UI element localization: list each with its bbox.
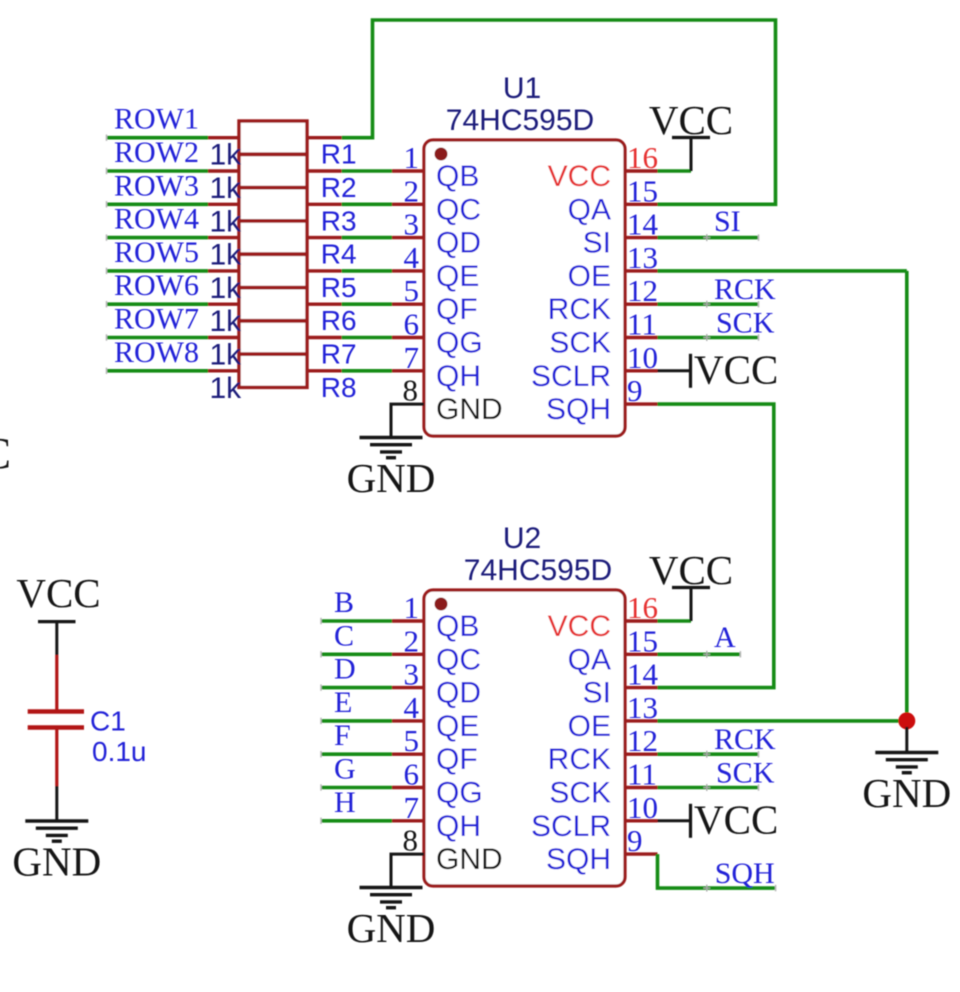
svg-text:GND: GND (347, 905, 436, 951)
svg-text:GND: GND (347, 455, 436, 501)
resistor R1 left pin (208, 136, 239, 139)
resistor divider 7 (239, 352, 307, 356)
U2 pin 4 stub (392, 719, 424, 722)
resistor divider 5 (239, 286, 307, 290)
wire A from U2 pin 15 (658, 652, 741, 656)
svg-text:R5: R5 (321, 272, 357, 303)
svg-text:QD: QD (436, 227, 481, 260)
U2 pin 13 stub (625, 719, 658, 722)
wire U1 pin 9 SQH down to U2 pin 14 SI (658, 404, 774, 687)
svg-text:GND: GND (436, 843, 503, 876)
resistor divider 6 (239, 319, 307, 323)
svg-text:11: 11 (627, 757, 657, 792)
svg-text:R4: R4 (321, 239, 357, 270)
resistor R6 right pin (307, 303, 342, 306)
U1 pin 14 stub (625, 236, 658, 239)
wire resistor to U1 pin 4 (342, 269, 392, 273)
svg-text:VCC: VCC (16, 570, 100, 616)
svg-text:QG: QG (436, 327, 483, 360)
svg-text:QG: QG (436, 777, 483, 810)
svg-text:QB: QB (436, 160, 479, 193)
wire U2 pin 10 to VCC bar (658, 819, 691, 822)
wire input H to U2 pin 7 (321, 819, 392, 823)
resistor divider 1 (239, 152, 307, 156)
wire SCK from U2 pin 11 (658, 786, 759, 790)
svg-text:QE: QE (436, 260, 479, 293)
svg-text:1k: 1k (210, 339, 243, 372)
IC U2 pin-1 dot (435, 598, 448, 611)
U1 pin 16 stub (625, 169, 658, 172)
wire ROW5 (107, 269, 209, 273)
wire ROW4 (107, 236, 209, 240)
wire RCK from U1 pin 12 (658, 302, 759, 306)
capacitor C1 top lead (55, 655, 58, 710)
svg-text:11: 11 (627, 307, 657, 342)
svg-text:8: 8 (403, 823, 419, 858)
U1 pin 11 stub (625, 336, 658, 339)
svg-text:U2: U2 (503, 522, 541, 555)
U2 pin 9 stub (625, 852, 658, 855)
wire junction to ground (905, 727, 908, 753)
svg-text:QA: QA (568, 193, 611, 226)
wire resistor to U1 pin 2 (342, 203, 392, 207)
U1 pin 12 stub (625, 303, 658, 306)
svg-text:VCC: VCC (694, 796, 778, 842)
resistor R3 right pin (307, 203, 342, 206)
svg-text:ROW2: ROW2 (114, 136, 199, 169)
wire right rail vertical (905, 271, 909, 721)
ground symbol at U2 pin 8 (360, 886, 423, 889)
wire OE U1 pin 13 to right rail (658, 269, 907, 273)
svg-text:RCK: RCK (548, 743, 611, 776)
svg-text:QC: QC (436, 643, 481, 676)
svg-text:6: 6 (404, 757, 420, 792)
resistor R8 left pin (208, 369, 239, 372)
svg-text:12: 12 (627, 723, 658, 758)
resistor R5 right pin (307, 269, 342, 272)
svg-text:C1: C1 (90, 706, 126, 737)
svg-text:2: 2 (404, 623, 420, 658)
wire resistor to U1 pin 1 (342, 169, 392, 173)
wire U1 pin 16 to VCC (658, 169, 692, 173)
wire input G to U2 pin 6 (321, 786, 392, 790)
svg-text:1k: 1k (210, 305, 243, 338)
wire resistor to U1 pin 7 (342, 369, 392, 373)
U1 pin 6 stub (392, 336, 424, 339)
resistor divider 4 (239, 252, 307, 256)
svg-text:B: B (334, 586, 354, 619)
svg-text:VCC: VCC (0, 429, 11, 478)
svg-text:74HC595D: 74HC595D (446, 104, 594, 137)
U1 pin 7 stub (392, 369, 424, 372)
IC U1 pin-1 dot (435, 148, 448, 161)
svg-text:5: 5 (404, 723, 420, 758)
wire input F to U2 pin 5 (321, 752, 392, 756)
U1 pin 13 stub (625, 269, 658, 272)
svg-text:SCLR: SCLR (531, 810, 611, 843)
svg-text:74HC595D: 74HC595D (464, 554, 612, 587)
svg-text:1k: 1k (210, 372, 243, 405)
U1 pin 2 stub (392, 203, 424, 206)
svg-text:SI: SI (583, 677, 611, 710)
wire ROW8 (107, 369, 209, 373)
resistor R2 right pin (307, 169, 342, 172)
svg-text:7: 7 (404, 340, 420, 375)
U1 pin 8 wire to ground (391, 404, 424, 437)
svg-text:QH: QH (436, 360, 481, 393)
U2 pin 11 stub (625, 786, 658, 789)
svg-text:SQH: SQH (546, 843, 611, 876)
svg-text:6: 6 (404, 307, 420, 342)
svg-text:SCK: SCK (549, 327, 611, 360)
junction node right rail (898, 712, 915, 729)
svg-text:VCC: VCC (548, 610, 611, 643)
svg-text:5: 5 (404, 273, 420, 308)
wire input D to U2 pin 3 (321, 686, 392, 690)
U2 pin 15 stub (625, 653, 658, 656)
wire VCC to C1 top (black) (55, 622, 58, 655)
wire net ROW1 loop: resistor R1 output up over to U1 pin 15 (342, 20, 776, 204)
svg-text:2: 2 (404, 173, 420, 208)
svg-text:QF: QF (436, 293, 478, 326)
resistor R8 right pin (307, 369, 342, 372)
svg-text:0.1u: 0.1u (92, 736, 147, 767)
U1 pin 9 stub (625, 402, 658, 405)
wire ROW7 (107, 336, 209, 340)
wire U2 pin 13 OE to right rail junction (658, 719, 907, 723)
wire SQH from U2 pin 9 (658, 854, 776, 888)
svg-text:SQH: SQH (715, 857, 775, 890)
wire ROW2 (107, 169, 209, 173)
svg-text:C: C (334, 619, 354, 652)
svg-text:3: 3 (404, 657, 420, 692)
wire resistor to U1 pin 3 (342, 236, 392, 240)
svg-text:1k: 1k (210, 172, 243, 205)
svg-text:12: 12 (627, 273, 658, 308)
wire input C to U2 pin 2 (321, 652, 392, 656)
U2 pin 14 stub (625, 686, 658, 689)
resistor divider 2 (239, 186, 307, 190)
IC U2 74HC595D U2 body (424, 590, 625, 886)
svg-text:16: 16 (627, 140, 658, 175)
svg-text:ROW5: ROW5 (114, 236, 199, 269)
VCC bar symbol at U1 pin 10 (689, 354, 692, 388)
svg-text:1k: 1k (210, 239, 243, 272)
U2 pin 5 stub (392, 753, 424, 756)
U2 pin 1 stub (392, 619, 424, 622)
svg-text:1: 1 (404, 140, 420, 175)
svg-text:ROW4: ROW4 (114, 203, 199, 236)
svg-text:QE: QE (436, 710, 479, 743)
svg-text:SI: SI (714, 205, 741, 238)
capacitor C1 bottom lead (55, 730, 58, 787)
svg-text:RCK: RCK (714, 723, 776, 756)
svg-text:GND: GND (436, 393, 503, 426)
svg-text:QF: QF (436, 743, 478, 776)
resistor pack R1-R8 outline (239, 121, 307, 387)
U2 pin 7 stub (392, 819, 424, 822)
svg-text:A: A (714, 621, 736, 654)
svg-text:E: E (334, 686, 352, 719)
resistor R6 left pin (208, 303, 239, 306)
resistor R3 left pin (208, 203, 239, 206)
svg-text:F: F (334, 719, 351, 752)
svg-text:SCK: SCK (716, 757, 775, 790)
resistor divider 3 (239, 219, 307, 223)
wire SI from U1 pin 14 (658, 236, 759, 240)
svg-text:14: 14 (627, 207, 659, 242)
IC U1 74HC595D U1 body (424, 140, 625, 436)
svg-text:ROW3: ROW3 (114, 169, 199, 202)
U1 pin 1 stub (392, 169, 424, 172)
svg-text:D: D (334, 653, 356, 686)
svg-text:R1: R1 (321, 139, 357, 170)
svg-text:16: 16 (627, 590, 658, 625)
svg-text:1: 1 (404, 590, 420, 625)
wire SCK from U1 pin 11 (658, 336, 759, 340)
svg-text:SCK: SCK (549, 777, 611, 810)
wire RCK from U2 pin 12 (658, 752, 759, 756)
VCC bar symbol at U2 pin 10 (689, 804, 692, 838)
svg-text:1k: 1k (210, 139, 243, 172)
wire resistor to U1 pin 5 (342, 302, 392, 306)
svg-text:1k: 1k (210, 205, 243, 238)
svg-text:RCK: RCK (548, 293, 611, 326)
U2 pin 6 stub (392, 786, 424, 789)
wire input E to U2 pin 4 (321, 719, 392, 723)
U2 pin 8 wire to ground (391, 854, 424, 887)
U2 pin 16 stub (625, 619, 658, 622)
svg-text:U1: U1 (503, 72, 541, 105)
resistor R7 right pin (307, 336, 342, 339)
svg-text:QH: QH (436, 810, 481, 843)
svg-text:VCC: VCC (548, 160, 611, 193)
svg-text:9: 9 (627, 823, 643, 858)
U2 pin 10 stub (625, 819, 658, 822)
svg-text:GND: GND (12, 839, 101, 885)
svg-text:9: 9 (627, 373, 643, 408)
svg-text:14: 14 (627, 657, 659, 692)
wire resistor to U1 pin 6 (342, 336, 392, 340)
svg-text:4: 4 (404, 240, 420, 275)
svg-text:R6: R6 (321, 305, 357, 336)
U1 pin 5 stub (392, 303, 424, 306)
svg-text:QA: QA (568, 643, 611, 676)
wire ROW1 (107, 136, 209, 140)
svg-text:R7: R7 (321, 339, 357, 370)
U2 pin 12 stub (625, 753, 658, 756)
svg-text:ROW8: ROW8 (114, 336, 199, 369)
wire ROW6 (107, 302, 209, 306)
svg-text:H: H (334, 786, 356, 819)
svg-text:ROW1: ROW1 (114, 103, 199, 136)
svg-text:8: 8 (403, 373, 419, 408)
wire input B to U2 pin 1 (321, 619, 392, 623)
svg-text:QD: QD (436, 677, 481, 710)
resistor R5 left pin (208, 269, 239, 272)
svg-text:GND: GND (862, 770, 951, 816)
U1 pin 10 stub (625, 369, 658, 372)
resistor R1 right pin (307, 136, 342, 139)
wire U2 pin 16 to VCC (658, 619, 692, 623)
ground symbol below C1 (25, 819, 88, 822)
wire C1 bottom to ground (black) (55, 786, 58, 821)
svg-text:SI: SI (583, 227, 611, 260)
svg-text:15: 15 (627, 623, 658, 658)
svg-text:13: 13 (627, 690, 658, 725)
svg-text:OE: OE (568, 260, 611, 293)
svg-text:SQH: SQH (546, 393, 611, 426)
svg-text:QC: QC (436, 193, 481, 226)
resistor R7 left pin (208, 336, 239, 339)
svg-text:3: 3 (404, 207, 420, 242)
wire U1 pin 10 to VCC bar (658, 369, 691, 372)
U2 pin 3 stub (392, 686, 424, 689)
resistor R2 left pin (208, 169, 239, 172)
svg-text:VCC: VCC (694, 346, 778, 392)
ground symbol right rail (875, 751, 938, 754)
svg-text:R8: R8 (321, 372, 357, 403)
svg-text:15: 15 (627, 173, 658, 208)
capacitor C1 plates (28, 709, 84, 713)
svg-text:R2: R2 (321, 172, 357, 203)
resistor R4 left pin (208, 236, 239, 239)
svg-text:SCK: SCK (716, 307, 775, 340)
svg-text:10: 10 (627, 340, 658, 375)
svg-text:G: G (334, 753, 356, 786)
U1 pin 3 stub (392, 236, 424, 239)
svg-text:OE: OE (568, 710, 611, 743)
wire ROW3 (107, 203, 209, 207)
svg-text:7: 7 (404, 790, 420, 825)
U1 pin 15 stub (625, 203, 658, 206)
resistor R4 right pin (307, 236, 342, 239)
ground symbol at U1 pin 8 (360, 436, 423, 439)
svg-text:R3: R3 (321, 205, 357, 236)
svg-text:10: 10 (627, 790, 658, 825)
U1 pin 4 stub (392, 269, 424, 272)
svg-text:RCK: RCK (714, 273, 776, 306)
svg-text:1k: 1k (210, 272, 243, 305)
svg-text:ROW6: ROW6 (114, 269, 199, 302)
svg-text:QB: QB (436, 610, 479, 643)
svg-text:13: 13 (627, 240, 658, 275)
svg-text:ROW7: ROW7 (114, 303, 199, 336)
U2 pin 2 stub (392, 653, 424, 656)
svg-text:4: 4 (404, 690, 420, 725)
svg-text:SCLR: SCLR (531, 360, 611, 393)
